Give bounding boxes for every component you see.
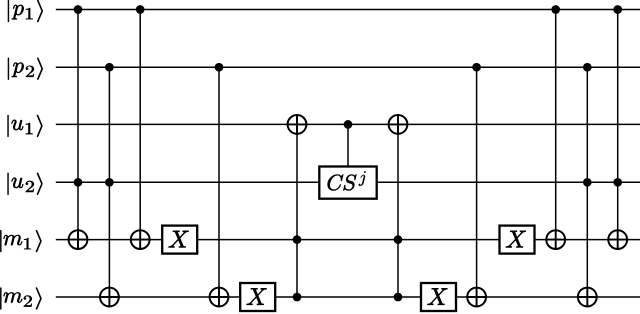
wire |m2> bbox=[56, 296, 640, 298]
toffoli 1 control dot on u2 bbox=[74, 178, 83, 187]
cnot 4 target XOR on m2 bbox=[209, 287, 230, 308]
gate X on m1 (left) bbox=[162, 226, 197, 254]
cnot 4 vertical wire bbox=[218, 67, 220, 307]
toffoli 7 control dot on m2 bbox=[394, 293, 403, 302]
ket label |m1> bbox=[0, 230, 41, 252]
toffoli 7 target XOR on u1 bbox=[388, 114, 409, 135]
toffoli 12 target XOR on m2 bbox=[577, 287, 598, 308]
ket label |p1> bbox=[8, 0, 43, 22]
toffoli 12 vertical wire bbox=[586, 67, 588, 307]
controlled-CS vertical wire bbox=[347, 124, 349, 167]
cnot 9 target XOR on m2 bbox=[466, 287, 487, 308]
toffoli 5 control dot on m1 bbox=[293, 235, 302, 244]
cnot 11 control dot on p1 bbox=[551, 5, 560, 14]
toffoli 2 vertical wire bbox=[108, 67, 110, 307]
cnot 9 control dot on p2 bbox=[472, 63, 481, 72]
cnot 3 target XOR on m1 bbox=[130, 229, 151, 250]
toffoli 13 control dot on u2 bbox=[613, 178, 622, 187]
cnot 11 vertical wire bbox=[555, 10, 557, 251]
cnot 4 control dot on p2 bbox=[215, 63, 224, 72]
toffoli 2 control dot on u2 bbox=[105, 178, 114, 187]
toffoli 7 control dot on m1 bbox=[394, 235, 403, 244]
controlled-CS control dot on u1 bbox=[344, 120, 353, 129]
toffoli 5 vertical wire bbox=[296, 114, 298, 297]
gate X on m2 (left) bbox=[240, 283, 275, 311]
gate box CS^j on u2 bbox=[319, 167, 376, 199]
ket label |u2> bbox=[8, 173, 43, 195]
toffoli 1 vertical wire bbox=[77, 10, 79, 251]
wire |p2> bbox=[56, 66, 640, 68]
toffoli 2 control dot on p2 bbox=[105, 63, 114, 72]
ket label |m2> bbox=[0, 288, 41, 310]
toffoli 2 target XOR on m2 bbox=[99, 287, 120, 308]
toffoli 12 control dot on u2 bbox=[583, 178, 592, 187]
wire |u1> bbox=[56, 123, 640, 125]
wire |m1> bbox=[56, 239, 640, 241]
gate X on m1 (right) bbox=[500, 226, 535, 254]
gate X on m2 (right) bbox=[421, 283, 456, 311]
wire |u2> bbox=[56, 181, 640, 183]
cnot 9 vertical wire bbox=[476, 67, 478, 307]
toffoli 13 target XOR on m1 bbox=[607, 229, 628, 250]
cnot 3 control dot on p1 bbox=[136, 5, 145, 14]
toffoli 12 control dot on p2 bbox=[583, 63, 592, 72]
toffoli 5 target XOR on u1 bbox=[287, 114, 308, 135]
toffoli 1 control dot on p1 bbox=[74, 5, 83, 14]
wire |p1> bbox=[56, 9, 640, 11]
toffoli 1 target XOR on m1 bbox=[68, 229, 89, 250]
toffoli 5 control dot on m2 bbox=[293, 293, 302, 302]
cnot 11 target XOR on m1 bbox=[545, 229, 566, 250]
ket label |p2> bbox=[8, 58, 43, 80]
cnot 3 vertical wire bbox=[139, 10, 141, 251]
toffoli 13 vertical wire bbox=[617, 10, 619, 251]
ket label |u1> bbox=[8, 115, 43, 137]
toffoli 13 control dot on p1 bbox=[613, 5, 622, 14]
toffoli 7 vertical wire bbox=[397, 114, 399, 297]
